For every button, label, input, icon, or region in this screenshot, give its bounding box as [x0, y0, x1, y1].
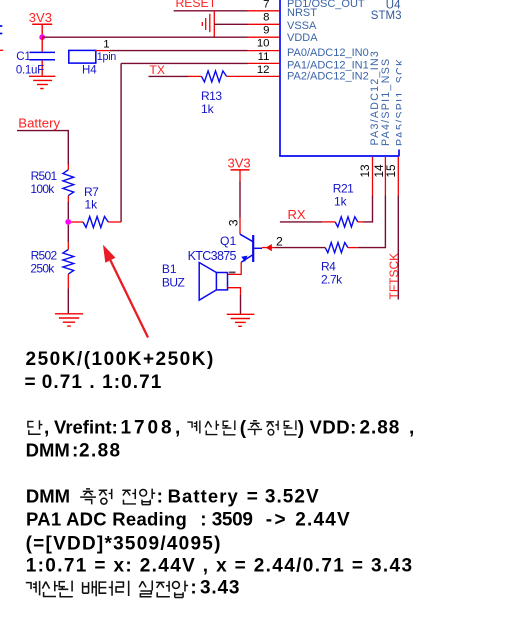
svg-text:8: 8 — [263, 11, 269, 23]
buzzer pin mark — [229, 271, 235, 273]
svg-text:R13: R13 — [201, 89, 222, 103]
svg-text:NRST: NRST — [287, 7, 317, 19]
svg-text:3V3: 3V3 — [228, 155, 251, 170]
wire Q1 emitter to buzzer — [228, 262, 242, 274]
svg-text:R4: R4 — [321, 260, 336, 274]
wire RESET net to NRST pin7 — [174, 10, 280, 12]
svg-text:TFTSCK: TFTSCK — [387, 253, 401, 300]
svg-text:BUZ: BUZ — [162, 276, 185, 290]
svg-text:7: 7 — [263, 0, 269, 10]
pin 13 stub — [372, 157, 374, 196]
svg-text:Battery: Battery — [168, 486, 239, 507]
resistor R21 — [335, 217, 358, 227]
annotation line: DMM:2.88 — [26, 440, 122, 462]
svg-text:3V3: 3V3 — [29, 10, 52, 25]
svg-text:PA1/ADC12_IN1: PA1/ADC12_IN1 — [287, 59, 369, 71]
svg-text:B1: B1 — [162, 262, 177, 276]
svg-text:1: 1 — [103, 39, 109, 51]
svg-text:->: -> — [266, 510, 288, 531]
svg-text:RX: RX — [288, 207, 306, 222]
pin 15 stub — [397, 157, 399, 196]
power symbol 3V3 (above Q1) — [228, 155, 251, 181]
wire RX to R21 — [280, 221, 335, 223]
svg-text:1k: 1k — [334, 195, 348, 209]
svg-text:RESET: RESET — [176, 0, 217, 10]
svg-text:C1: C1 — [16, 51, 31, 63]
svg-text:3.43: 3.43 — [200, 578, 240, 599]
annotation red arrow pointing at R7 — [103, 245, 148, 338]
resistor R502 — [63, 250, 74, 275]
svg-text:=: = — [247, 487, 258, 508]
svg-text:VSSA: VSSA — [287, 20, 317, 32]
svg-text:250k: 250k — [30, 262, 55, 276]
svg-text:11: 11 — [258, 51, 270, 63]
wire R502 to ground — [67, 274, 69, 313]
node junction dot (magenta) 3V3/VDDA/C1 — [39, 34, 45, 40]
svg-text:Vrefint:: Vrefint: — [54, 417, 118, 438]
wire VSSA pin8 stub — [214, 23, 247, 25]
wire Battery to R501 — [17, 131, 68, 170]
svg-text:1pin: 1pin — [97, 51, 117, 63]
resistor R501 — [63, 170, 74, 196]
wire pin14 riser to R4 — [358, 196, 386, 248]
svg-text:1k: 1k — [201, 102, 215, 116]
annotation line: dan, Vrefint:1708, gyesandoen(chujeongdoen) VDD:2.88 , — [28, 417, 414, 440]
svg-text:,: , — [175, 418, 180, 439]
ground under Q1/buzzer — [227, 314, 255, 326]
svg-text:=: = — [25, 372, 36, 393]
svg-text:PA2/ADC12_IN2: PA2/ADC12_IN2 — [287, 71, 369, 83]
svg-text:,: , — [44, 418, 49, 439]
wire H4 to PA0 pin10 — [95, 50, 280, 52]
svg-text:H4: H4 — [82, 64, 97, 76]
svg-text:100k: 100k — [30, 182, 55, 196]
wire 3V3 to Q1 collector — [239, 181, 241, 234]
svg-text::: : — [190, 578, 196, 599]
svg-text:PA0/ADC12_IN0: PA0/ADC12_IN0 — [287, 47, 369, 59]
svg-text:Battery: Battery — [18, 116, 60, 131]
svg-text:VDDA: VDDA — [287, 32, 318, 44]
svg-text:R501: R501 — [31, 169, 58, 183]
svg-text:13: 13 — [358, 164, 372, 178]
annotation text line: =0.71 . 1:0.71 — [25, 372, 163, 393]
svg-text:R502: R502 — [31, 249, 58, 263]
annotation line: PA1 ADC Reading : 3509 -> 2.44V — [26, 509, 351, 531]
svg-text::: : — [72, 441, 78, 462]
IC U4 STM32 body — [279, 0, 399, 156]
svg-text:2.88: 2.88 — [79, 441, 122, 462]
wire buzzer to ground — [228, 288, 241, 315]
svg-text:PA1 ADC Reading: PA1 ADC Reading — [26, 509, 187, 530]
wire pin13 riser to R21 — [363, 196, 373, 222]
wire 3V3 to VDDA pin9 — [42, 36, 280, 38]
transistor Q1 KTC3875 — [188, 234, 262, 263]
svg-text:1708: 1708 — [121, 418, 175, 439]
wire node to R7 — [71, 221, 83, 223]
resistor R13 — [202, 71, 227, 82]
svg-text:3.52V: 3.52V — [265, 487, 320, 508]
svg-text:9: 9 — [263, 25, 269, 37]
resistor R4 — [321, 243, 358, 287]
resistor R7 — [83, 217, 108, 228]
wire R4 to Q1 base — [262, 247, 325, 249]
svg-text:15: 15 — [384, 164, 398, 178]
svg-text:PA4/SPI1_NSS: PA4/SPI1_NSS — [380, 58, 392, 146]
wire node to R502 — [67, 225, 69, 250]
svg-text:KTC3875: KTC3875 — [188, 249, 237, 263]
wire PA1 pin11 to R7 riser — [108, 63, 280, 222]
svg-text:12: 12 — [257, 64, 270, 76]
svg-text:3509: 3509 — [212, 510, 253, 531]
svg-text:0.1uF: 0.1uF — [16, 64, 44, 76]
svg-text:1k: 1k — [85, 198, 99, 212]
connector H4 1pin — [69, 39, 117, 77]
wire TX to R13 — [149, 75, 202, 77]
svg-text:): ) — [298, 418, 304, 439]
svg-text:TX: TX — [149, 63, 165, 77]
cut wire stub left edge (red) — [0, 49, 3, 51]
svg-text:DMM: DMM — [26, 440, 70, 461]
pin 14 stub — [384, 157, 386, 196]
svg-text::: : — [200, 510, 206, 531]
wire R501 to node — [67, 196, 69, 219]
annotation line: gyesandoen battery siljeonap: 3.43 — [26, 578, 240, 599]
svg-text:250K/(100K+250K): 250K/(100K+250K) — [26, 349, 215, 370]
node 2 arrow (red, at Q1 base) — [266, 244, 272, 251]
wire R13 to PA2 pin12 — [227, 75, 280, 77]
power symbol 3V3 (top left) — [29, 10, 52, 36]
ground under R502 — [55, 314, 83, 326]
svg-text:2.7k: 2.7k — [321, 273, 343, 287]
svg-text:10: 10 — [257, 38, 270, 50]
annotation line: DMM meas voltage: Battery = 3.52V — [26, 486, 320, 508]
svg-text:2.88: 2.88 — [360, 418, 401, 439]
svg-text:(: ( — [240, 418, 247, 439]
node junction dot (magenta) divider — [65, 219, 71, 225]
svg-text:(=[VDD]*3509/4095): (=[VDD]*3509/4095) — [26, 533, 222, 554]
svg-text:2: 2 — [276, 234, 283, 248]
svg-text:1:0.71 = x: 2.44V , x = 2.44/0: 1:0.71 = x: 2.44V , x = 2.44/0.71 = 3.43 — [26, 556, 414, 577]
svg-text:VDD:: VDD: — [310, 417, 357, 438]
cut wire stub left edge (blue cap plates) — [0, 25, 2, 27]
svg-text:,: , — [409, 418, 414, 439]
svg-text:DMM: DMM — [26, 486, 70, 507]
ground under C1 — [29, 76, 55, 88]
svg-text:0.71 . 1:0.71: 0.71 . 1:0.71 — [42, 372, 163, 393]
wire pin15 riser TFTSCK — [397, 196, 399, 300]
svg-text:3: 3 — [227, 219, 241, 226]
svg-text:Q1: Q1 — [220, 234, 236, 248]
white mask right of schematic clip — [402, 0, 529, 160]
capacitor/transducer symbol on NRST (red arcs) — [202, 11, 214, 37]
capacitor C1 — [16, 37, 55, 76]
svg-text:2.44V: 2.44V — [295, 510, 351, 531]
buzzer B1 — [162, 262, 228, 300]
svg-text::: : — [157, 487, 163, 508]
